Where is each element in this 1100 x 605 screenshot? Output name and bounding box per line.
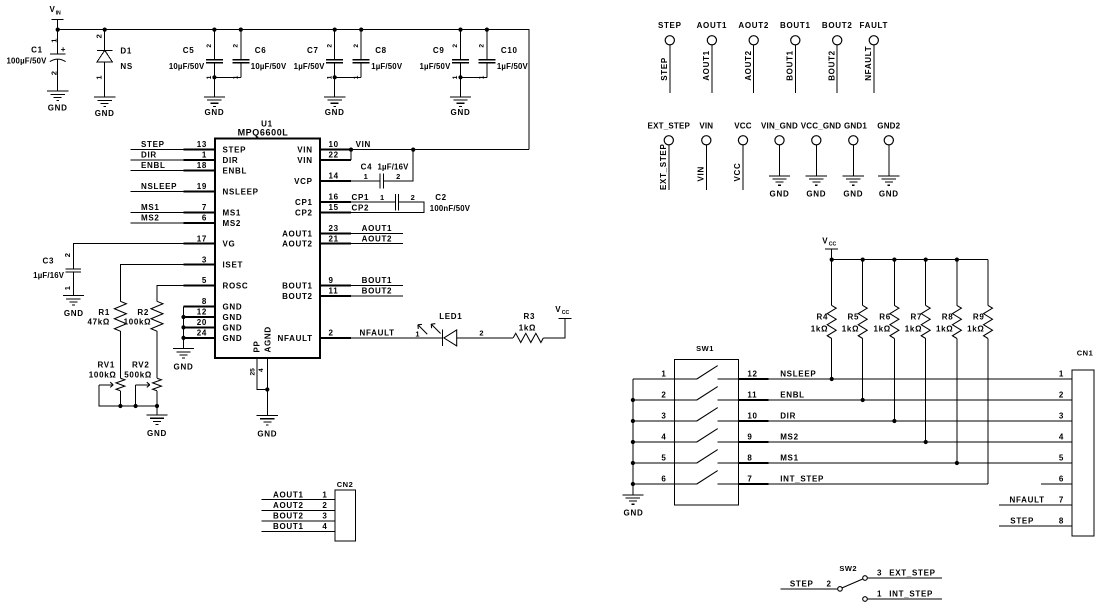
svg-text:2: 2	[63, 253, 72, 257]
svg-text:23: 23	[329, 224, 339, 233]
svg-text:MS1: MS1	[141, 203, 160, 212]
capacitor C1 100uF/50V polarized	[6, 30, 66, 92]
svg-text:GND: GND	[879, 189, 899, 198]
wire C6 to C5 bottom	[214, 76, 240, 78]
svg-text:5: 5	[202, 276, 207, 285]
capacitor C8 1µF/50V	[353, 30, 403, 80]
svg-text:NS: NS	[120, 62, 133, 71]
svg-text:ENBL: ENBL	[141, 161, 166, 170]
node NFAULT CN1 pin7	[999, 495, 1072, 505]
svg-text:BOUT1: BOUT1	[362, 276, 393, 285]
junction GND pin 12	[181, 315, 185, 319]
node AOUT2 net stub	[351, 234, 403, 243]
node AOUT1 CN2 pin 1	[262, 490, 336, 499]
svg-text:1: 1	[380, 193, 385, 202]
svg-text:6: 6	[661, 474, 666, 483]
ground R divider	[146, 406, 167, 438]
switch SW1 pole 3	[675, 408, 739, 421]
connector CN1 body	[1072, 349, 1094, 536]
svg-text:VCC_GND: VCC_GND	[801, 122, 842, 131]
svg-text:4: 4	[258, 368, 265, 372]
wire CN1 pin6 stub	[1041, 483, 1072, 485]
svg-text:10µF/50V: 10µF/50V	[251, 62, 287, 71]
wire PP pin 25	[257, 358, 267, 390]
svg-text:4: 4	[322, 522, 327, 531]
wire R1 to RV1	[119, 331, 121, 378]
node MS2 label	[780, 432, 799, 441]
ground IC GND pins	[173, 349, 194, 372]
svg-text:C9: C9	[433, 46, 445, 55]
svg-text:INT_STEP: INT_STEP	[780, 474, 824, 483]
pin 12 GND stub	[184, 308, 243, 322]
wire NSLEEP net	[768, 378, 1072, 380]
pin 11 BOUT2 stub	[282, 287, 351, 301]
svg-text:EXT_STEP: EXT_STEP	[648, 122, 691, 131]
svg-text:1kΩ: 1kΩ	[842, 325, 859, 334]
svg-text:1: 1	[877, 589, 882, 598]
svg-text:9: 9	[747, 432, 752, 441]
resistor R1 47k	[87, 301, 126, 331]
svg-text:2: 2	[479, 44, 486, 48]
svg-text:2: 2	[452, 44, 459, 48]
wire RV1 wiper return	[99, 385, 120, 406]
capacitor C9 1µF/50V	[419, 30, 469, 80]
capacitor C6 10µF/50V	[232, 30, 287, 80]
pin 6 CN1 number	[1059, 474, 1064, 483]
svg-text:C2: C2	[435, 193, 447, 202]
svg-text:MS1: MS1	[223, 208, 242, 217]
svg-text:IN: IN	[56, 11, 61, 17]
svg-text:AOUT1: AOUT1	[702, 50, 711, 81]
junction rail-C8	[359, 28, 363, 32]
pin 22 VIN stub	[297, 151, 351, 165]
svg-text:12: 12	[197, 308, 207, 317]
switch SW1 pole 6	[675, 471, 739, 484]
node BOUT1 CN2 pin 4	[262, 522, 336, 531]
svg-text:BOUT2: BOUT2	[362, 287, 393, 296]
svg-text:4: 4	[661, 432, 666, 441]
svg-text:1: 1	[63, 285, 72, 290]
svg-text:V: V	[822, 237, 828, 246]
svg-text:CN1: CN1	[1077, 349, 1094, 358]
wire C8 to C7 bottom	[335, 76, 362, 78]
svg-text:C6: C6	[255, 46, 267, 55]
svg-text:ENBL: ENBL	[223, 167, 248, 176]
svg-text:1kΩ: 1kΩ	[811, 325, 828, 334]
wire AGND pin 4	[266, 358, 268, 416]
svg-text:LED1: LED1	[439, 312, 462, 321]
svg-text:STEP: STEP	[790, 579, 814, 588]
capacitor C3 1uF/16V	[33, 253, 81, 296]
svg-text:19: 19	[197, 182, 207, 191]
resistor R2 100k	[124, 301, 163, 331]
pin 8 SW1 stub	[739, 453, 769, 463]
test point VCC_GND	[801, 122, 842, 176]
test point STEP	[658, 21, 682, 93]
svg-text:R2: R2	[137, 308, 149, 317]
svg-text:22: 22	[329, 151, 339, 160]
svg-text:CN2: CN2	[337, 480, 354, 489]
pin 23 AOUT1 stub	[282, 224, 351, 238]
wire VCP to C4	[351, 180, 380, 182]
svg-text:13: 13	[197, 140, 207, 149]
svg-text:BOUT1: BOUT1	[282, 282, 313, 291]
op-amp U1 MPQ6600L driver IC body	[215, 120, 320, 358]
svg-text:10: 10	[329, 140, 339, 149]
svg-text:CP2: CP2	[352, 204, 370, 213]
ground GND1	[843, 176, 864, 199]
junction rail R6	[892, 258, 896, 262]
wire SW1 left pin 1	[633, 369, 675, 379]
wire SW1 left pin 2	[633, 390, 675, 400]
pin 21 AOUT2 stub	[282, 234, 351, 248]
svg-text:+: +	[61, 45, 66, 54]
svg-text:ROSC: ROSC	[223, 282, 249, 291]
svg-text:2: 2	[1059, 390, 1064, 399]
svg-text:9: 9	[329, 276, 334, 285]
ground VCC_GND	[806, 176, 827, 199]
svg-text:15: 15	[329, 203, 339, 212]
wire RV1 bottom	[119, 391, 121, 406]
svg-text:R9: R9	[973, 313, 985, 322]
wire MS1 net	[768, 462, 1072, 464]
test point GND1	[844, 122, 867, 176]
svg-text:RV2: RV2	[132, 360, 150, 369]
ground SW1	[622, 495, 643, 518]
svg-text:GND: GND	[174, 362, 194, 371]
svg-text:BOUT2: BOUT2	[282, 292, 313, 301]
ground GND2	[878, 176, 899, 199]
wire VCC rail	[832, 259, 988, 261]
resistor R5 1k	[842, 260, 867, 339]
node CP2 label	[352, 204, 370, 213]
svg-text:GND: GND	[325, 108, 345, 117]
wire INT_STEP net	[768, 483, 988, 485]
svg-text:R8: R8	[942, 313, 954, 322]
pin 6 MS2 stub	[184, 213, 242, 227]
svg-text:7: 7	[1059, 496, 1064, 505]
svg-text:1µF/50V: 1µF/50V	[371, 62, 403, 71]
wire R5 bottom	[862, 339, 864, 401]
svg-text:GND: GND	[48, 104, 68, 113]
svg-text:2: 2	[396, 172, 401, 181]
junction rail R5	[861, 258, 865, 262]
svg-text:C4: C4	[361, 162, 373, 171]
junction rail-C10	[485, 28, 489, 32]
svg-text:R3: R3	[524, 312, 536, 321]
svg-text:2: 2	[322, 501, 327, 510]
svg-text:3: 3	[1059, 411, 1064, 420]
svg-text:1: 1	[326, 75, 333, 79]
pin 7 MS1 stub	[184, 203, 242, 217]
pin 8 GND stub	[184, 297, 243, 311]
pin 2 CN1 number	[1059, 390, 1064, 399]
pin 10 VIN stub	[297, 140, 351, 154]
svg-text:MS2: MS2	[223, 219, 242, 228]
ground C5/C6	[204, 77, 225, 117]
svg-text:VIN: VIN	[697, 166, 706, 181]
wire NFAULT net	[351, 329, 443, 338]
svg-text:AOUT1: AOUT1	[697, 21, 728, 30]
resistor R6 1k	[873, 260, 898, 339]
svg-text:VCC: VCC	[733, 163, 742, 182]
svg-text:BOUT1: BOUT1	[273, 522, 304, 531]
switch SW2	[838, 564, 868, 601]
junction C7 bottom	[333, 75, 337, 79]
junction C5 bottom	[212, 75, 216, 79]
svg-text:AOUT1: AOUT1	[273, 490, 304, 499]
svg-text:1: 1	[50, 38, 59, 43]
wire R6 bottom	[893, 339, 895, 422]
svg-text:1: 1	[1059, 369, 1064, 378]
junction rail-D1	[103, 28, 107, 32]
svg-text:GND: GND	[223, 334, 243, 343]
svg-text:NSLEEP: NSLEEP	[780, 369, 816, 378]
svg-text:1: 1	[661, 369, 666, 378]
node INT_STEP label	[780, 474, 824, 483]
svg-text:10: 10	[747, 411, 757, 420]
node ENBL net stub	[130, 161, 183, 170]
junction R8 net	[955, 461, 959, 465]
node STEP net stub	[130, 140, 183, 149]
power symbol VCC at R4	[822, 237, 838, 260]
svg-text:NFAULT: NFAULT	[864, 46, 873, 81]
svg-text:2: 2	[661, 390, 666, 399]
svg-text:RV1: RV1	[97, 360, 115, 369]
svg-text:1: 1	[94, 75, 103, 80]
svg-text:GND: GND	[204, 108, 224, 117]
junction rail R8	[955, 258, 959, 262]
svg-text:8: 8	[747, 453, 752, 462]
svg-text:1: 1	[206, 75, 213, 79]
svg-text:2: 2	[326, 44, 333, 48]
svg-text:CP1: CP1	[352, 193, 370, 202]
node ENBL label	[780, 390, 805, 399]
svg-text:GND: GND	[624, 508, 644, 517]
potentiometer RV2 500k	[124, 360, 161, 391]
wire R7 bottom	[925, 339, 927, 443]
svg-text:1kΩ: 1kΩ	[873, 325, 890, 334]
svg-text:2: 2	[411, 193, 416, 202]
svg-text:VIN: VIN	[699, 122, 713, 131]
svg-text:NSLEEP: NSLEEP	[223, 187, 259, 196]
svg-text:2: 2	[94, 34, 103, 38]
wire VG to C3	[73, 244, 183, 269]
svg-text:R6: R6	[879, 313, 891, 322]
junction rail R7	[924, 258, 928, 262]
wire SW1 left pin 3	[633, 411, 675, 421]
connector CN2 body	[335, 480, 356, 541]
svg-text:STEP: STEP	[1010, 516, 1034, 525]
svg-text:GND2: GND2	[877, 122, 900, 131]
node NSLEEP label	[780, 369, 816, 378]
svg-text:FAULT: FAULT	[859, 21, 888, 30]
test point BOUT2	[822, 21, 853, 93]
wire STEP to SW2	[780, 579, 837, 589]
test point GND2	[877, 122, 900, 176]
pin 9 BOUT1 stub	[282, 276, 351, 290]
junction VIN C4	[411, 148, 415, 152]
resistor R4 1k	[811, 260, 836, 339]
svg-text:MS2: MS2	[141, 213, 160, 222]
svg-text:INT_STEP: INT_STEP	[889, 589, 933, 598]
svg-text:1kΩ: 1kΩ	[519, 323, 536, 332]
pin 10 SW1 stub	[739, 411, 769, 421]
test point AOUT1	[697, 21, 728, 93]
junction rail-C7	[333, 28, 337, 32]
pin 20 GND stub	[184, 318, 243, 332]
pin 5 CN1 number	[1059, 453, 1064, 462]
junction RV2 wiper	[134, 404, 138, 408]
svg-text:C8: C8	[375, 46, 387, 55]
junction SW1 bus row 3	[631, 419, 635, 423]
pin 8 CN1 number	[1059, 517, 1064, 526]
svg-text:2: 2	[50, 71, 59, 75]
junction AGND	[265, 387, 269, 391]
pin 7 SW1 stub	[739, 474, 769, 484]
pin 16 CP1 stub	[295, 193, 351, 207]
svg-text:8: 8	[1059, 517, 1064, 526]
pin 12 SW1 stub	[739, 369, 769, 379]
svg-text:VG: VG	[223, 240, 236, 249]
svg-text:EXT_STEP: EXT_STEP	[659, 143, 668, 190]
svg-text:BOUT1: BOUT1	[786, 50, 795, 81]
svg-text:EXT_STEP: EXT_STEP	[889, 568, 936, 577]
pin 18 ENBL stub	[184, 161, 248, 175]
svg-text:5: 5	[1059, 453, 1064, 462]
svg-text:1µF/50V: 1µF/50V	[419, 62, 451, 71]
svg-text:GND: GND	[806, 189, 826, 198]
svg-text:C10: C10	[501, 46, 518, 55]
switch SW1 pole 1	[675, 366, 739, 379]
svg-text:4: 4	[1059, 432, 1064, 441]
svg-text:GND: GND	[223, 303, 243, 312]
switch SW1 pole 2	[675, 387, 739, 400]
node DIR label	[780, 411, 796, 420]
node DIR net stub	[130, 151, 183, 160]
pin 19 NSLEEP stub	[184, 182, 259, 196]
capacitor C10 1µF/50V	[478, 30, 528, 80]
svg-text:500kΩ: 500kΩ	[124, 370, 152, 379]
node AOUT2 CN2 pin 2	[262, 501, 336, 510]
test point VIN	[697, 122, 714, 191]
svg-text:1µF/16V: 1µF/16V	[33, 271, 65, 280]
junction R4 net	[830, 377, 834, 381]
svg-text:NFAULT: NFAULT	[360, 329, 395, 338]
pin 7 CN1 number	[1059, 496, 1064, 505]
svg-text:ENBL: ENBL	[780, 390, 805, 399]
wire C2 to CP2	[351, 202, 424, 213]
wire R9 bottom	[987, 339, 989, 485]
junction rail-C5	[212, 28, 216, 32]
resistor R3 1k	[513, 312, 543, 342]
svg-text:VIN_GND: VIN_GND	[761, 122, 798, 131]
junction rail-C9	[458, 28, 462, 32]
test point AOUT2	[738, 21, 769, 93]
ground D1	[94, 97, 115, 118]
ground C7/C8	[324, 77, 345, 117]
wire SW1 left pin 4	[633, 432, 675, 442]
svg-text:2: 2	[479, 328, 484, 337]
wire ROSC to R2	[157, 286, 184, 302]
junction RV2 bottom	[155, 404, 159, 408]
svg-text:NFAULT: NFAULT	[278, 334, 313, 343]
svg-text:D1: D1	[120, 47, 132, 56]
junction SW1 bus row 4	[631, 440, 635, 444]
svg-text:C5: C5	[183, 46, 195, 55]
test point VCC	[733, 122, 752, 191]
svg-text:R7: R7	[911, 313, 923, 322]
svg-text:VCP: VCP	[294, 177, 313, 186]
wire R2 to RV2	[156, 331, 158, 378]
power symbol VCC at R3	[555, 305, 571, 319]
pin 5 ROSC stub	[184, 276, 249, 290]
svg-text:C1: C1	[31, 46, 43, 55]
svg-text:C3: C3	[43, 257, 55, 266]
pin 14 VCP stub	[294, 172, 351, 186]
junction VIN pin22	[349, 148, 353, 152]
svg-text:1µF/50V: 1µF/50V	[294, 62, 326, 71]
svg-text:SW2: SW2	[839, 564, 857, 573]
test point EXT_STEP	[648, 122, 691, 191]
svg-text:12: 12	[747, 369, 757, 378]
wire VIN net	[351, 140, 529, 149]
svg-text:GND: GND	[223, 323, 243, 332]
svg-text:SW1: SW1	[696, 344, 714, 353]
svg-text:17: 17	[197, 234, 207, 243]
svg-text:47kΩ: 47kΩ	[87, 318, 110, 327]
svg-text:C7: C7	[307, 46, 319, 55]
svg-text:CC: CC	[829, 242, 837, 248]
svg-text:VIN: VIN	[356, 140, 371, 149]
svg-text:DIR: DIR	[223, 156, 239, 165]
svg-text:GND: GND	[95, 109, 115, 118]
svg-text:V: V	[555, 305, 561, 314]
svg-text:6: 6	[1059, 474, 1064, 483]
switch SW1 body	[675, 344, 739, 505]
svg-text:1kΩ: 1kΩ	[905, 325, 922, 334]
junction RV1 bottom	[118, 404, 122, 408]
capacitor C4 1uF/16V	[361, 162, 410, 188]
junction GND pin 20	[181, 325, 185, 329]
svg-text:1: 1	[322, 490, 327, 499]
pin 4 CN1 number	[1059, 432, 1064, 441]
svg-text:AOUT2: AOUT2	[362, 234, 393, 243]
wire pot bottom bus	[99, 405, 157, 407]
svg-text:R5: R5	[848, 313, 860, 322]
junction R7 net	[924, 440, 928, 444]
node INT_STEP SW2 pin1	[867, 589, 942, 599]
svg-text:2: 2	[329, 329, 334, 338]
svg-text:STEP: STEP	[658, 21, 682, 30]
svg-text:VIN: VIN	[297, 156, 312, 165]
svg-text:AOUT2: AOUT2	[282, 240, 313, 249]
wire R4 bottom	[831, 339, 833, 380]
svg-text:2: 2	[353, 44, 360, 48]
svg-text:2: 2	[232, 44, 239, 48]
pin 15 CP2 stub	[295, 203, 351, 217]
ground C1	[47, 91, 68, 113]
switch SW1 pole 4	[675, 429, 739, 442]
wire SW1 left pin 5	[633, 453, 675, 463]
svg-text:AGND: AGND	[264, 326, 273, 352]
svg-text:7: 7	[202, 203, 207, 212]
pin 3 CN1 number	[1059, 411, 1064, 420]
wire ENBL net	[768, 399, 1072, 401]
svg-text:1kΩ: 1kΩ	[936, 325, 953, 334]
junction SW1 bus row 2	[631, 398, 635, 402]
junction C9 bottom	[458, 75, 462, 79]
